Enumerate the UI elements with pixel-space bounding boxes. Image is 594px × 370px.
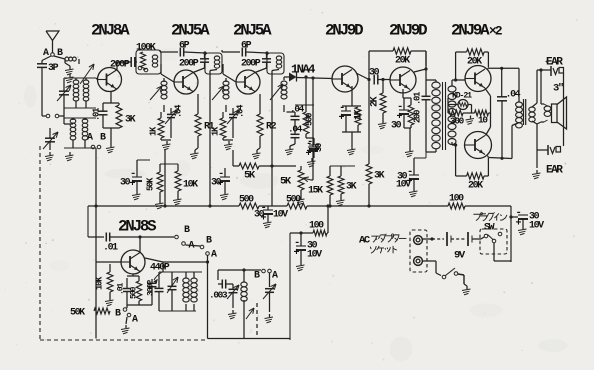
core trimmer arrow T9 — [246, 308, 254, 319]
power switch — [422, 260, 436, 262]
band switch contacts — [46, 114, 50, 118]
electrolytic 30 AVC det — [309, 144, 319, 146]
resistor 300 — [448, 110, 463, 116]
wire pair2 down — [207, 256, 209, 339]
wire mid rail 1 — [137, 159, 165, 161]
Q4 emitter network 30 1K — [351, 86, 353, 106]
resistor R1 — [195, 114, 201, 136]
svg-text:1NA4: 1NA4 — [291, 63, 315, 77]
emitter coil Q2 — [161, 81, 167, 86]
electrolytic 30 volume — [308, 146, 318, 148]
svg-text:50K: 50K — [146, 177, 156, 191]
resistor 10 — [475, 110, 489, 116]
output transformer T7 — [516, 102, 523, 107]
resistor 3K second — [368, 80, 370, 165]
electrolytic 30 10V sub — [296, 245, 306, 247]
svg-text:20K: 20K — [395, 55, 410, 66]
ground battery — [466, 286, 468, 289]
ground output — [536, 170, 538, 173]
switch contacts B A low — [126, 305, 128, 308]
electrolytic 30 10V far right — [511, 216, 518, 218]
svg-text:500: 500 — [239, 194, 254, 205]
transistor Q2 2NJ5A — [174, 70, 198, 94]
svg-text:EAR: EAR — [546, 57, 563, 69]
svg-text:10V: 10V — [307, 249, 322, 260]
resistor 3K first — [338, 176, 344, 194]
svg-text:-: - — [407, 166, 412, 178]
capacitor .01 osc input — [88, 236, 104, 238]
svg-text:1K: 1K — [353, 109, 364, 120]
emitter join wires — [485, 88, 491, 96]
ground R1 — [194, 150, 196, 153]
ground Q1 emitter — [103, 127, 119, 129]
wire Q5 collector — [414, 69, 426, 72]
trimmer arrow Q2 — [150, 86, 162, 100]
svg-text:R2: R2 — [266, 121, 277, 132]
svg-text:EAR: EAR — [546, 165, 563, 177]
wire vertical feed x165 — [164, 150, 166, 206]
transistor Q5 2NJ9D — [390, 67, 416, 93]
switch contacts pair2 — [186, 245, 201, 246]
svg-text:3K: 3K — [125, 114, 136, 125]
svg-text:200P: 200P — [110, 59, 130, 70]
svg-text:2K: 2K — [369, 96, 380, 107]
diode 1NA4 — [284, 76, 289, 78]
wire volume to detector rail — [312, 79, 314, 148]
wire box left — [87, 206, 89, 237]
wire base Q2 — [161, 74, 174, 82]
ground R2 — [256, 150, 258, 153]
transistor Q6 2NJ9A top — [465, 66, 491, 92]
antenna — [46, 31, 59, 41]
antenna coupling coil — [54, 56, 65, 59]
resistor 10K — [175, 171, 181, 191]
wire Q1 emitter network — [110, 92, 112, 104]
scan noise — [193, 56, 195, 58]
wire 10 to emitters — [489, 112, 491, 114]
resistor 5K series — [232, 150, 234, 166]
wire Q7 collector — [487, 156, 490, 158]
dashed enclosure — [39, 146, 41, 340]
ground emitter Q3 — [223, 139, 233, 141]
resistor 20K top feedback — [455, 52, 457, 80]
wire secondary to bases — [451, 80, 453, 86]
oscillator transformer windings — [70, 119, 76, 123]
svg-text:50K: 50K — [70, 307, 85, 318]
wire Q1 collector — [116, 62, 118, 70]
svg-text:3": 3" — [553, 83, 564, 95]
svg-text:200P: 200P — [241, 58, 261, 69]
svg-text:-: - — [339, 102, 344, 114]
transistor Q3 2NJ5A — [236, 70, 260, 94]
svg-text:-: - — [218, 168, 223, 180]
svg-text:3K: 3K — [346, 181, 357, 192]
ground det — [289, 146, 291, 149]
dashed line mid — [256, 303, 258, 336]
svg-text:10V: 10V — [273, 209, 288, 220]
wire battery return — [493, 254, 495, 261]
svg-text:-: - — [306, 138, 311, 150]
svg-text:SW: SW — [484, 222, 495, 233]
svg-text:.003: .003 — [209, 290, 228, 301]
wire Q6 collector — [487, 68, 488, 69]
Q5 emitter network 30 200 — [402, 89, 404, 98]
wire T7 secondary — [532, 103, 537, 107]
svg-text:200: 200 — [413, 110, 423, 123]
resistor 20K bottom feedback — [455, 145, 457, 176]
driver transformer T6 — [432, 82, 440, 88]
svg-text:15K: 15K — [308, 185, 323, 196]
ground osc emitter — [125, 325, 127, 328]
wire bottom rail solid — [208, 338, 291, 340]
svg-text:2NJ9D: 2NJ9D — [325, 22, 363, 40]
wire vertical feed x272 — [271, 150, 273, 206]
trimmer right — [269, 273, 271, 287]
wire long vertical to 2NJ8S section — [95, 148, 97, 339]
svg-text:10K: 10K — [95, 276, 105, 290]
resistor 3K Q1 — [118, 103, 120, 105]
svg-text:×2: ×2 — [489, 24, 502, 39]
transistor Q4 2NJ9D — [332, 66, 358, 92]
svg-text:2NJ5A: 2NJ5A — [233, 22, 272, 40]
svg-text:20K: 20K — [468, 180, 483, 191]
trimmer arrow Q3 — [212, 86, 224, 100]
wire bus down right — [510, 206, 512, 262]
svg-text:.01: .01 — [103, 242, 118, 253]
wire B+ bus — [88, 205, 239, 207]
wire collector to tank — [145, 258, 163, 262]
wire rail y270 — [218, 269, 261, 271]
svg-text:300P: 300P — [147, 280, 156, 296]
svg-text:10K: 10K — [183, 179, 198, 190]
svg-text:200P: 200P — [179, 58, 199, 69]
svg-text:-: - — [294, 237, 299, 249]
wire vertical feed x210 — [209, 150, 211, 206]
transistor Q1 2NJ8A — [98, 68, 122, 92]
wire junction 100 ohm drop — [327, 206, 329, 222]
wire primary — [435, 80, 437, 82]
ground emitter mid — [470, 116, 472, 119]
oscillator coil T1 — [45, 137, 55, 139]
wire Q4 collector to coupling — [356, 73, 369, 80]
wire vertical to lower box — [289, 233, 291, 340]
svg-text:3P: 3P — [48, 62, 59, 73]
resistor 20K feedback driver — [368, 51, 370, 80]
oscillator coil T8 — [167, 277, 178, 293]
svg-text:2NJ9A: 2NJ9A — [451, 22, 490, 40]
emitter coil Q3 — [223, 81, 229, 86]
svg-text:10V: 10V — [529, 220, 544, 231]
wire speaker feed — [540, 70, 542, 104]
second coil T9 — [241, 282, 247, 287]
detector coil T5 — [281, 81, 287, 86]
ferrite bar antenna transformer — [59, 90, 69, 92]
svg-text:440P: 440P — [150, 262, 170, 273]
svg-text:100: 100 — [309, 220, 324, 231]
resistor R2 — [257, 114, 263, 136]
plug-in switch SW label — [473, 214, 480, 220]
svg-text:30: 30 — [314, 143, 324, 152]
svg-text:2NJ8S: 2NJ8S — [118, 218, 156, 236]
trimmer arrow — [80, 64, 94, 84]
trimmer capacitor mid — [229, 288, 238, 290]
capacitor 3P — [42, 56, 51, 61]
transistor Q7 2NJ9A bottom — [465, 132, 492, 159]
svg-text:300: 300 — [450, 116, 465, 127]
wire jack tip down — [563, 73, 565, 146]
wire base Q3 — [223, 74, 236, 82]
svg-text:.01: .01 — [413, 92, 423, 105]
svg-text:2NJ5A: 2NJ5A — [171, 22, 210, 40]
svg-text:3K: 3K — [374, 170, 385, 181]
svg-text:20K: 20K — [467, 56, 482, 67]
ground emitter Q2 — [161, 139, 171, 141]
svg-text:2NJ9D: 2NJ9D — [389, 22, 427, 40]
svg-text:-: - — [397, 101, 402, 113]
wire T7 primary — [518, 68, 520, 102]
IF transformer Q3 — [267, 53, 284, 74]
svg-text:100K: 100K — [136, 42, 156, 53]
transistor Q8 2NJ8S — [121, 250, 145, 274]
IF transformer Q2 — [205, 53, 222, 74]
switch contacts pair1 — [133, 236, 174, 238]
